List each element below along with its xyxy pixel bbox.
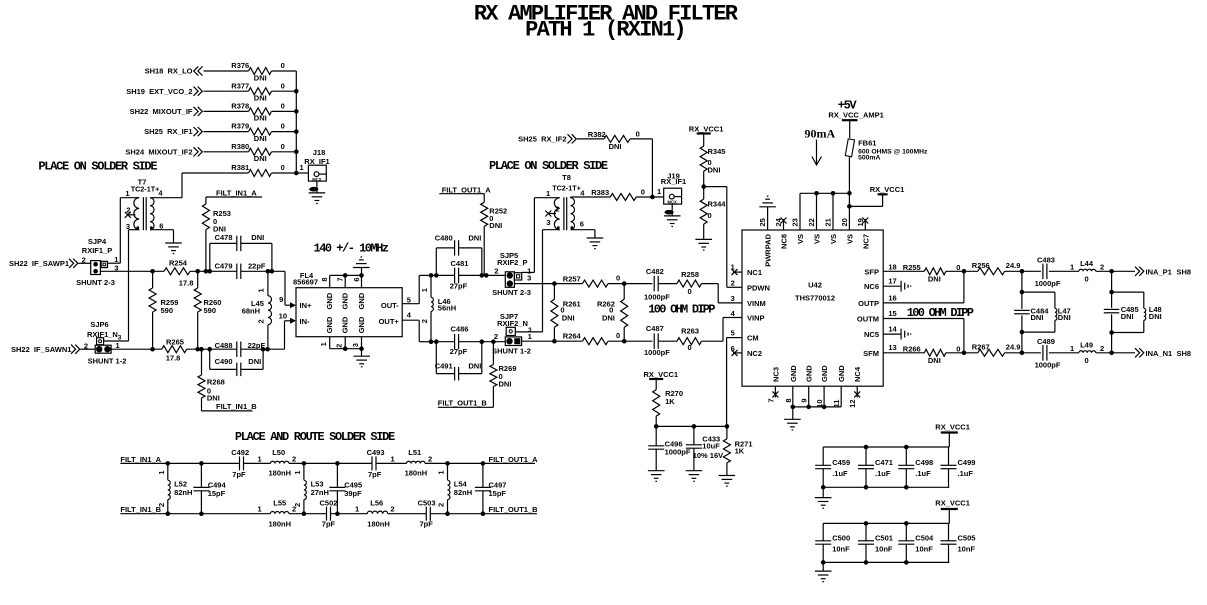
svg-text:856697: 856697 — [293, 278, 318, 287]
node FILT_IN1_B label bottom — [120, 505, 167, 514]
svg-text:2: 2 — [157, 503, 166, 507]
svg-text:DNI: DNI — [254, 73, 267, 82]
svg-text:0: 0 — [281, 61, 285, 70]
jumper SJP7 RXIF2_N — [492, 312, 532, 356]
ground T8 — [587, 238, 604, 249]
svg-text:100 OHM DIPP: 100 OHM DIPP — [648, 303, 715, 317]
svg-text:10nF: 10nF — [875, 545, 893, 554]
junction filter row B — [166, 511, 171, 516]
wire row N' — [431, 341, 505, 343]
svg-text:VS: VS — [813, 234, 822, 244]
svg-text:TC2-1T+: TC2-1T+ — [131, 184, 160, 193]
power RX_VCC1 cap bank — [935, 422, 970, 447]
ground C496 — [648, 471, 665, 482]
svg-text:13: 13 — [888, 343, 896, 352]
svg-text:1: 1 — [157, 470, 166, 474]
svg-text:90mA: 90mA — [805, 127, 836, 141]
junction C485 loop top — [1109, 290, 1114, 295]
junction GND pin9 — [806, 405, 811, 410]
svg-text:10: 10 — [279, 311, 287, 320]
svg-text:C499: C499 — [958, 458, 976, 467]
svg-text:0: 0 — [708, 211, 712, 220]
svg-text:FILT_OUT1_B: FILT_OUT1_B — [438, 398, 488, 407]
resistor R258 — [658, 270, 701, 296]
ground cap bank — [815, 562, 832, 581]
svg-text:NC7: NC7 — [861, 234, 870, 249]
svg-text:RX_VCC1: RX_VCC1 — [689, 125, 724, 134]
capacitor C478 DNI — [210, 233, 272, 271]
ground U42 — [784, 419, 801, 430]
svg-text:DNI: DNI — [254, 154, 267, 163]
junction L45 bottom — [265, 347, 270, 352]
text 90mA current arrow — [805, 127, 836, 165]
svg-text:1: 1 — [258, 505, 262, 514]
jumper SJP5 RXIF2_P — [492, 251, 531, 297]
resistor R378 — [231, 102, 284, 123]
svg-text:IN+: IN+ — [300, 301, 313, 310]
wire R381 to J18 — [272, 163, 309, 173]
junction cap bank gnd — [821, 485, 826, 490]
svg-text:T8: T8 — [562, 173, 571, 182]
power RX_VCC1 cap bank — [935, 499, 970, 524]
svg-text:RX_VCC1: RX_VCC1 — [870, 185, 905, 194]
svg-text:39pF: 39pF — [344, 489, 362, 498]
svg-text:DNI: DNI — [251, 233, 264, 242]
svg-text:590: 590 — [161, 306, 174, 315]
svg-text:R345: R345 — [708, 147, 726, 156]
node RX_IF1 input port — [144, 127, 202, 136]
svg-text:INA_P1: INA_P1 — [1146, 267, 1172, 276]
svg-text:DNI: DNI — [248, 357, 261, 366]
svg-text:R254: R254 — [169, 258, 188, 267]
wire U42 NC6 ground — [883, 285, 901, 287]
svg-text:SH22 IF_SAWP1: SH22 IF_SAWP1 — [9, 259, 69, 268]
svg-text:27pF: 27pF — [450, 347, 468, 356]
resistor R345 DNI — [700, 146, 725, 199]
svg-text:DNI: DNI — [708, 166, 721, 175]
svg-text:C479: C479 — [215, 262, 233, 271]
text PLACE ON SOLDER SIDE left — [38, 160, 157, 174]
wire T7 pin6 to ground — [150, 230, 174, 243]
node IF_SAWN1 input port — [11, 345, 80, 354]
node INA_N1 output port — [1135, 348, 1191, 358]
wire R379 row — [204, 131, 297, 133]
svg-text:10nF: 10nF — [915, 545, 933, 554]
junction R262 bottom — [622, 339, 627, 344]
inductor L47 DNI — [1055, 307, 1071, 323]
svg-text:VS: VS — [796, 234, 805, 244]
wire U42 OUTP — [883, 271, 964, 303]
svg-text:7pF: 7pF — [420, 519, 434, 528]
capacitor C489 1000pF — [1035, 337, 1061, 370]
svg-text:180nH: 180nH — [269, 519, 292, 528]
junction bus — [294, 109, 299, 114]
junction cap bank bottom — [904, 485, 909, 490]
svg-text:FILT_OUT1_B: FILT_OUT1_B — [489, 505, 539, 514]
wire U42 CM to node — [727, 338, 742, 427]
svg-text:SHUNT 2-3: SHUNT 2-3 — [76, 278, 115, 287]
svg-text:7: 7 — [336, 277, 345, 281]
svg-text:DNI: DNI — [602, 314, 615, 323]
junction bus — [294, 89, 299, 94]
svg-text:C487: C487 — [646, 324, 664, 333]
junction R382/R383 node — [650, 195, 655, 200]
node EXT_VCO_2 input port — [126, 87, 202, 96]
wire row P to FL4 pin9 — [285, 271, 290, 305]
svg-text:L50: L50 — [272, 448, 285, 457]
resistor R271 1K — [723, 426, 752, 475]
svg-text:8: 8 — [320, 277, 329, 281]
svg-text:0: 0 — [281, 142, 285, 151]
inductor L55 180nH — [258, 499, 297, 529]
svg-text:NC2: NC2 — [747, 349, 762, 358]
text PLACE ON SOLDER SIDE right — [489, 159, 608, 173]
node FILT_IN1_B label — [202, 402, 258, 411]
no-connect U42 pin19 NC7 — [862, 218, 868, 231]
junction FL4 bottom pin2 — [343, 346, 348, 351]
junction C490 right — [261, 347, 266, 352]
svg-text:2: 2 — [437, 503, 446, 507]
inductor L44 — [1079, 259, 1104, 284]
svg-text:1: 1 — [546, 189, 550, 198]
svg-text:C492: C492 — [231, 448, 249, 457]
node FILT_OUT1_B label — [438, 398, 494, 407]
svg-text:L51: L51 — [408, 448, 421, 457]
power RX_VCC1 at R270 — [644, 370, 679, 390]
wire J18 bus — [295, 71, 297, 173]
text 100 OHM DIPP right — [907, 306, 974, 320]
wire R266 to R267 — [946, 352, 978, 354]
svg-text:RX_VCC1: RX_VCC1 — [935, 422, 970, 431]
wire VS bus — [800, 158, 849, 231]
wire R256 to C483 — [1005, 270, 1041, 272]
svg-text:SH25 RX_IF1: SH25 RX_IF1 — [144, 127, 192, 136]
svg-text:2: 2 — [731, 279, 735, 288]
wire U42 GND pins — [793, 386, 841, 419]
resistor R269 DNI — [490, 342, 517, 408]
svg-text:R381: R381 — [231, 163, 249, 172]
node RX_IF2 input port — [518, 134, 576, 143]
wire R254 to node A — [190, 270, 237, 272]
svg-text:C490: C490 — [215, 357, 233, 366]
junction R268 top — [199, 347, 204, 352]
wire C483 to L44 — [1049, 262, 1079, 271]
transformer T8 TC2-1T+ — [546, 173, 585, 230]
junction GND pin8 — [791, 405, 796, 410]
svg-text:2: 2 — [335, 344, 344, 348]
junction R260 top — [195, 269, 200, 274]
inductor L53 27nH — [293, 463, 329, 513]
svg-text:GND: GND — [341, 316, 350, 333]
junction cap bank bottom — [864, 560, 869, 565]
jumper SJP4 RXIF1_P — [76, 237, 118, 287]
svg-text:24.9: 24.9 — [1006, 261, 1021, 270]
svg-text:C498: C498 — [915, 458, 933, 467]
ground R344 — [695, 239, 712, 250]
junction R262 top — [622, 281, 627, 286]
svg-text:1: 1 — [319, 342, 328, 346]
inductor L56 180nH — [355, 499, 395, 529]
svg-text:SH8: SH8 — [1177, 349, 1192, 358]
resistor R259 590 — [149, 271, 178, 349]
svg-text:0: 0 — [1085, 356, 1089, 365]
wire C485/L48 branch — [1112, 271, 1144, 353]
wire T8 pin6 to ground — [571, 230, 595, 238]
wire PDWN net — [704, 187, 742, 288]
svg-text:R261: R261 — [563, 299, 581, 308]
svg-text:23: 23 — [791, 218, 800, 226]
svg-text:140 +/- 10MHz: 140 +/- 10MHz — [314, 242, 389, 256]
svg-text:C505: C505 — [958, 533, 976, 542]
svg-text:15pF: 15pF — [489, 489, 507, 498]
ground FL4 top — [353, 257, 370, 276]
svg-text:500mA: 500mA — [858, 155, 880, 162]
ground T7 — [165, 243, 182, 254]
svg-text:PATH 1 (RXIN1): PATH 1 (RXIN1) — [525, 18, 685, 43]
svg-text:C483: C483 — [1037, 256, 1055, 265]
svg-text:PWRPAD: PWRPAD — [764, 233, 773, 266]
svg-text:1: 1 — [258, 454, 262, 463]
wire cap bank rails — [823, 447, 949, 487]
svg-text:OUTM: OUTM — [857, 315, 879, 324]
resistor R376 — [231, 61, 284, 82]
wire RX_IF2 to R382 — [577, 138, 604, 140]
op-amp U42 THS770012 — [731, 217, 898, 408]
capacitor C484 DNI — [1014, 307, 1049, 323]
capacitor C495 39pF — [329, 463, 362, 513]
node FILT_IN1_A label bottom — [120, 455, 167, 464]
svg-text:100 OHM DIPP: 100 OHM DIPP — [907, 306, 974, 320]
svg-text:L55: L55 — [273, 499, 286, 508]
svg-text:1K: 1K — [735, 447, 745, 456]
junction RX_VCC1 tap — [847, 204, 852, 209]
svg-text:2: 2 — [494, 332, 498, 341]
junction R269 top — [491, 339, 496, 344]
svg-text:SH18 RX_LO: SH18 RX_LO — [145, 67, 193, 76]
svg-text:2: 2 — [292, 505, 296, 514]
svg-text:C481: C481 — [451, 259, 469, 268]
svg-text:FB61: FB61 — [858, 139, 876, 148]
svg-text:C459: C459 — [832, 458, 850, 467]
svg-text:TC2-1T+: TC2-1T+ — [552, 183, 581, 192]
svg-text:1: 1 — [437, 470, 446, 474]
junction cap bank bottom — [904, 560, 909, 565]
no-connect U42 pin24 NC8 — [781, 218, 787, 231]
resistor R262 DNI — [597, 284, 628, 342]
svg-text:FILT_IN1_A: FILT_IN1_A — [216, 189, 257, 198]
wire R378 row — [204, 110, 297, 112]
ground U42 NC6 — [901, 281, 911, 292]
capacitor C483 1000pF — [1035, 256, 1061, 289]
svg-text:RX_IF1: RX_IF1 — [304, 157, 329, 166]
node MIXOUT_IF2 input port — [125, 147, 202, 156]
svg-text:1: 1 — [1070, 344, 1074, 353]
capacitor C459 .1uF — [815, 447, 850, 487]
title text — [474, 2, 739, 43]
svg-text:C493: C493 — [367, 448, 385, 457]
capacitor C499 .1uF — [941, 447, 976, 487]
svg-text:10% 16V: 10% 16V — [693, 451, 723, 460]
junction R253 bottom — [204, 269, 209, 274]
svg-text:590: 590 — [204, 306, 217, 315]
svg-text:2: 2 — [292, 454, 296, 463]
svg-text:DNI: DNI — [1149, 312, 1162, 321]
junction bus — [294, 129, 299, 134]
svg-text:10nF: 10nF — [958, 545, 976, 554]
svg-text:7pF: 7pF — [368, 470, 382, 479]
svg-text:FILT_OUT1_A: FILT_OUT1_A — [489, 455, 539, 464]
wire U42 OUTM — [883, 319, 964, 353]
junction L46 top — [429, 273, 434, 278]
svg-text:27nH: 27nH — [311, 488, 329, 497]
svg-text:SH22 IF_SAWN1: SH22 IF_SAWN1 — [11, 345, 71, 354]
svg-text:DNI: DNI — [468, 234, 481, 243]
inductor L54 82nH — [437, 463, 472, 513]
svg-text:.1uF: .1uF — [832, 469, 848, 478]
svg-text:6: 6 — [580, 220, 584, 229]
wire R380 row — [204, 151, 297, 153]
junction R261 top — [552, 281, 557, 286]
svg-text:2: 2 — [1100, 262, 1104, 271]
svg-text:3: 3 — [351, 343, 360, 347]
svg-text:SH22 MIXOUT_IF: SH22 MIXOUT_IF — [130, 107, 193, 116]
power RX_VCC1 at R345 — [689, 125, 724, 147]
capacitor C496 1000pF — [648, 426, 691, 470]
svg-text:DNI: DNI — [1121, 312, 1134, 321]
wire T8 pin4 to R383 — [571, 196, 611, 199]
ground R271 — [719, 476, 736, 487]
junction filter row A — [199, 461, 204, 466]
svg-text:C482: C482 — [646, 267, 664, 276]
svg-text:10uF: 10uF — [702, 442, 720, 451]
power +5V RX_VCC_AMP1 — [828, 99, 883, 139]
junction filter row B — [481, 511, 486, 516]
svg-text:R383: R383 — [591, 188, 609, 197]
svg-text:R344: R344 — [708, 199, 727, 208]
junction filter row B — [445, 511, 450, 516]
capacitor C487 1000pF — [644, 324, 670, 357]
node FILT_OUT1_B label bottom — [483, 505, 538, 514]
capacitor C497 15pF — [475, 463, 507, 513]
junction FL4 top pin7 — [343, 273, 348, 278]
svg-text:8: 8 — [784, 399, 793, 403]
node MIXOUT_IF input port — [130, 107, 203, 116]
svg-text:17.8: 17.8 — [179, 278, 194, 287]
svg-text:DNI: DNI — [254, 114, 267, 123]
wire C479 to node B — [241, 270, 285, 272]
capacitor C494 15pF — [193, 463, 226, 513]
svg-text:OUTP: OUTP — [858, 299, 879, 308]
ground cap bank — [815, 487, 832, 508]
filter FL4 856697 — [279, 271, 412, 349]
wire R255 to R256 — [946, 270, 978, 272]
svg-text:R264: R264 — [563, 332, 582, 341]
inductor L45 68nH — [242, 271, 272, 349]
node IF_SAWP1 input port — [9, 259, 78, 268]
junction C484 loop top — [1020, 290, 1025, 295]
resistor R383 — [591, 188, 645, 201]
svg-text:SHUNT 2-3: SHUNT 2-3 — [492, 288, 531, 297]
svg-text:DNI: DNI — [609, 142, 622, 151]
svg-text:16: 16 — [888, 294, 896, 303]
junction C485 bottom node — [1109, 351, 1114, 356]
svg-text:C486: C486 — [451, 325, 469, 334]
no-connect T8 pin2 — [545, 211, 556, 217]
svg-text:INA_N1: INA_N1 — [1146, 349, 1173, 358]
svg-text:25: 25 — [758, 218, 767, 226]
wire SJP7 pin1 to R264 — [522, 340, 583, 342]
capacitor C493 7pF — [367, 448, 395, 479]
junction filter row B — [302, 511, 307, 516]
svg-text:U42: U42 — [808, 281, 822, 290]
wire U42 SFP to R255 — [883, 270, 924, 272]
node FILT_IN1_A label — [206, 189, 262, 198]
svg-text:GND: GND — [820, 365, 829, 382]
svg-text:C489: C489 — [1037, 337, 1055, 346]
inductor L52 82nH — [157, 463, 192, 513]
capacitor C471 .1uF — [858, 447, 893, 487]
svg-text:L44: L44 — [1080, 259, 1094, 268]
svg-text:0: 0 — [641, 188, 645, 197]
capacitor C486 27pF — [450, 325, 469, 357]
junction L46 bottom — [429, 339, 434, 344]
svg-text:NC3: NC3 — [771, 367, 780, 382]
capacitor C488 22pF — [215, 341, 266, 357]
ground J19 — [664, 204, 681, 226]
svg-text:3: 3 — [546, 218, 550, 227]
svg-text:2: 2 — [494, 267, 498, 276]
svg-text:R382: R382 — [588, 130, 606, 139]
connector J18 RX_IF1 — [304, 148, 329, 182]
capacitor C490 DNI — [210, 349, 263, 376]
wire filter row B — [168, 513, 483, 515]
svg-text:IN-: IN- — [300, 317, 311, 326]
svg-text:24.9: 24.9 — [1006, 343, 1021, 352]
junction VS pin22 — [814, 191, 819, 196]
resistor R379 — [231, 122, 284, 143]
wire R376 row — [204, 70, 297, 72]
resistor R381 — [231, 163, 284, 176]
svg-text:C471: C471 — [875, 458, 893, 467]
capacitor C433 10uF — [686, 426, 723, 470]
svg-text:GND: GND — [805, 365, 814, 382]
svg-text:3: 3 — [527, 274, 531, 283]
svg-text:22: 22 — [807, 218, 816, 226]
capacitor C501 10nF — [858, 523, 893, 562]
svg-text:1: 1 — [391, 454, 395, 463]
svg-text:DNI: DNI — [1058, 313, 1071, 322]
svg-text:20: 20 — [840, 218, 849, 226]
svg-text:FILT_OUT1_A: FILT_OUT1_A — [442, 186, 492, 195]
svg-text:1: 1 — [657, 187, 661, 196]
ground U42 NC5 — [901, 329, 911, 340]
junction cap bank bottom — [864, 485, 869, 490]
svg-text:L56: L56 — [370, 499, 383, 508]
junction OUTP node — [962, 269, 967, 274]
svg-text:R257: R257 — [563, 274, 581, 283]
resistor R261 DNI — [551, 284, 581, 342]
wire T7 pin1 to SJP4 pin1 — [108, 198, 139, 264]
svg-text:17.8: 17.8 — [166, 354, 181, 363]
wire cap bank rails — [823, 523, 949, 562]
svg-text:0: 0 — [616, 273, 620, 282]
svg-text:C501: C501 — [875, 533, 893, 542]
svg-text:VS: VS — [829, 234, 838, 244]
svg-text:27pF: 27pF — [450, 281, 468, 290]
junction C484 top node — [1020, 269, 1025, 274]
svg-text:NC4: NC4 — [853, 366, 862, 382]
wire SJP7 pin3 to T8 pin3 — [515, 230, 542, 332]
